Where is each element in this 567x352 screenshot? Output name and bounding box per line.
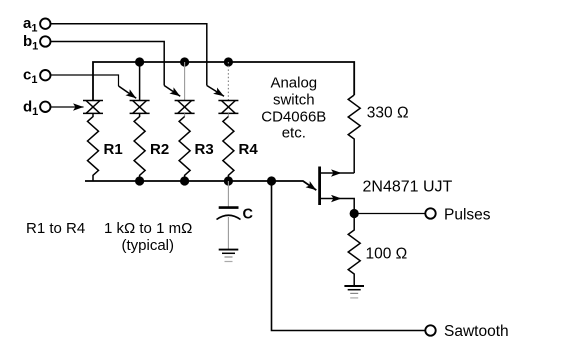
svg-text:switch: switch bbox=[273, 92, 315, 109]
svg-text:R4: R4 bbox=[239, 141, 259, 158]
svg-text:(typical): (typical) bbox=[122, 237, 175, 254]
svg-text:CD4066B: CD4066B bbox=[261, 109, 326, 126]
svg-text:2N4871 UJT: 2N4871 UJT bbox=[363, 179, 453, 196]
svg-text:100 Ω: 100 Ω bbox=[366, 246, 408, 263]
svg-text:C: C bbox=[243, 207, 254, 223]
svg-text:Sawtooth: Sawtooth bbox=[444, 323, 509, 340]
svg-text:1 kΩ to 1 mΩ: 1 kΩ to 1 mΩ bbox=[104, 220, 192, 237]
svg-text:R3: R3 bbox=[195, 141, 214, 158]
svg-text:Pulses: Pulses bbox=[444, 207, 491, 224]
svg-text:R1: R1 bbox=[104, 141, 123, 158]
svg-text:330 Ω: 330 Ω bbox=[367, 105, 409, 122]
svg-text:R1 to R4: R1 to R4 bbox=[26, 220, 85, 237]
svg-text:Analog: Analog bbox=[270, 75, 317, 92]
svg-text:R2: R2 bbox=[150, 141, 169, 158]
svg-text:etc.: etc. bbox=[282, 125, 306, 142]
